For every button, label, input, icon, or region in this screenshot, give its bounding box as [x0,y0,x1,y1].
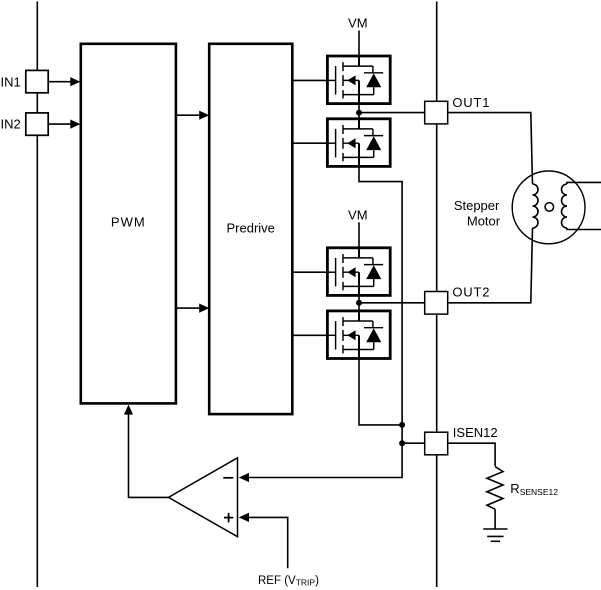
svg-text:IN2: IN2 [1,117,21,132]
wire: REF to comparator plus input with arrow [249,517,288,568]
wire: junction to OUT1 pin [359,112,425,114]
inductor: motor winding B [562,184,568,228]
node IN1 (pin square) [26,70,48,92]
wire: Q1 source to Q2 drain [358,104,360,119]
node: OUT2 junction dot [356,300,362,306]
wire: stepper motor to OUT2 [448,228,533,303]
wire: PWM to Predrive arrow 2 [176,307,200,309]
svg-text:PWM: PWM [111,214,146,229]
wire: comparator output to PWM with arrow [129,415,169,498]
svg-text:IN1: IN1 [1,74,21,89]
svg-text:VM: VM [348,207,368,222]
svg-text:OUT2: OUT2 [452,285,490,300]
svg-text:Stepper: Stepper [454,198,500,213]
wire: winding B bottom lead [567,228,601,230]
wire: PWM to Predrive arrow 1 [176,114,200,116]
transistor Q3 (high-side FET with body diode) [327,248,390,296]
svg-text:ISEN12: ISEN12 [453,425,498,440]
wire: VM to Q1 drain [358,31,360,57]
node: OUT1 junction dot [356,110,362,116]
wire: winding B top lead [567,182,601,184]
wire: Predrive to gate of Q3 [292,271,327,273]
node: sense junction dot 2 [399,440,405,446]
wire: right device boundary [436,2,438,588]
op-amp U1: current comparator [169,458,238,537]
wire: left device boundary [36,2,38,588]
node ISEN12 (pin square) [425,432,448,455]
svg-text:Predrive: Predrive [226,220,274,235]
wire: IN1 to PWM with arrow [48,81,71,83]
node OUT1 (pin square) [425,101,448,124]
wire: Q3 source to Q4 drain [358,295,360,311]
node OUT2 (pin square) [425,292,448,315]
transistor Q1 (high-side FET with body diode) [327,56,390,104]
svg-text:OUT1: OUT1 [452,95,490,110]
wire: VM to Q3 drain [358,222,360,248]
svg-text:RSENSE12: RSENSE12 [510,481,558,497]
node IN2 (pin square) [26,113,48,135]
resistor RSENSE12 [487,467,503,510]
wire: resistor to ground [494,509,496,529]
resistor RSENSE12 lead from ISEN12 [448,443,495,466]
wire: arrow into comparator minus input [239,473,249,482]
motor M1: stator circle [512,171,585,244]
ground [483,528,507,530]
wire: OUT1 to stepper motor [448,113,533,184]
node: sense junction dot 1 [399,422,405,428]
wire: Predrive to gate of Q2 [292,142,327,144]
wire: sense node to ISEN12 pin [402,442,425,444]
wire: Q2 source down to sense node [249,166,402,477]
transistor Q2 (low-side FET with body diode) [327,119,390,167]
inductor: motor winding A [533,184,539,228]
motor M1: rotor circle [545,203,554,212]
label: plus input [224,517,233,519]
svg-text:REF (VTRIP): REF (VTRIP) [258,575,319,588]
wire: IN2 to PWM with arrow [48,123,71,125]
transistor Q4 (low-side FET with body diode) [327,311,390,359]
svg-text:VM: VM [348,16,368,31]
wire: Predrive to gate of Q4 [292,334,327,336]
block Predrive [209,44,292,414]
block PWM [81,44,176,404]
wire: Predrive to gate of Q1 [292,79,327,81]
label: minus input [223,477,233,479]
wire: Q4 source down to sense node [359,359,402,425]
wire: junction to OUT2 pin [359,302,425,304]
svg-text:Motor: Motor [467,214,501,229]
